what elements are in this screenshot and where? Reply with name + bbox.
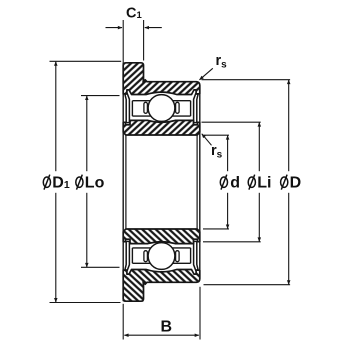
C1 extension lines — [122, 20, 124, 64]
Li dim — [258, 123, 260, 172]
B extension lines — [122, 304, 124, 340]
phi Lo — [76, 175, 83, 190]
B dim line — [124, 334, 161, 336]
shield left — [125, 94, 129, 123]
d dim — [227, 136, 229, 172]
right face line — [199, 85, 201, 135]
svg-text:D: D — [290, 175, 302, 192]
rs leaders — [200, 68, 213, 80]
svg-text:d: d — [230, 175, 240, 192]
svg-text:Lo: Lo — [85, 175, 105, 192]
phi d — [220, 175, 227, 190]
cage — [132, 101, 190, 116]
D1 dim — [55, 62, 57, 172]
C1 arrows — [106, 27, 123, 29]
ball — [148, 95, 175, 122]
D dim — [288, 80, 290, 171]
inner ring (section, hatched) — [123, 120, 200, 135]
shield right — [194, 94, 198, 123]
Lo dim — [86, 96, 88, 171]
cage pocket slots — [144, 102, 148, 113]
svg-text:B: B — [161, 319, 173, 336]
left face line — [122, 63, 124, 135]
bore face lines — [123, 135, 200, 229]
phi Li — [248, 175, 255, 190]
phi D1 — [43, 175, 50, 190]
svg-text:Li: Li — [257, 175, 271, 192]
flange + outer ring (section, hatched) — [123, 63, 200, 95]
phi D — [281, 175, 288, 190]
